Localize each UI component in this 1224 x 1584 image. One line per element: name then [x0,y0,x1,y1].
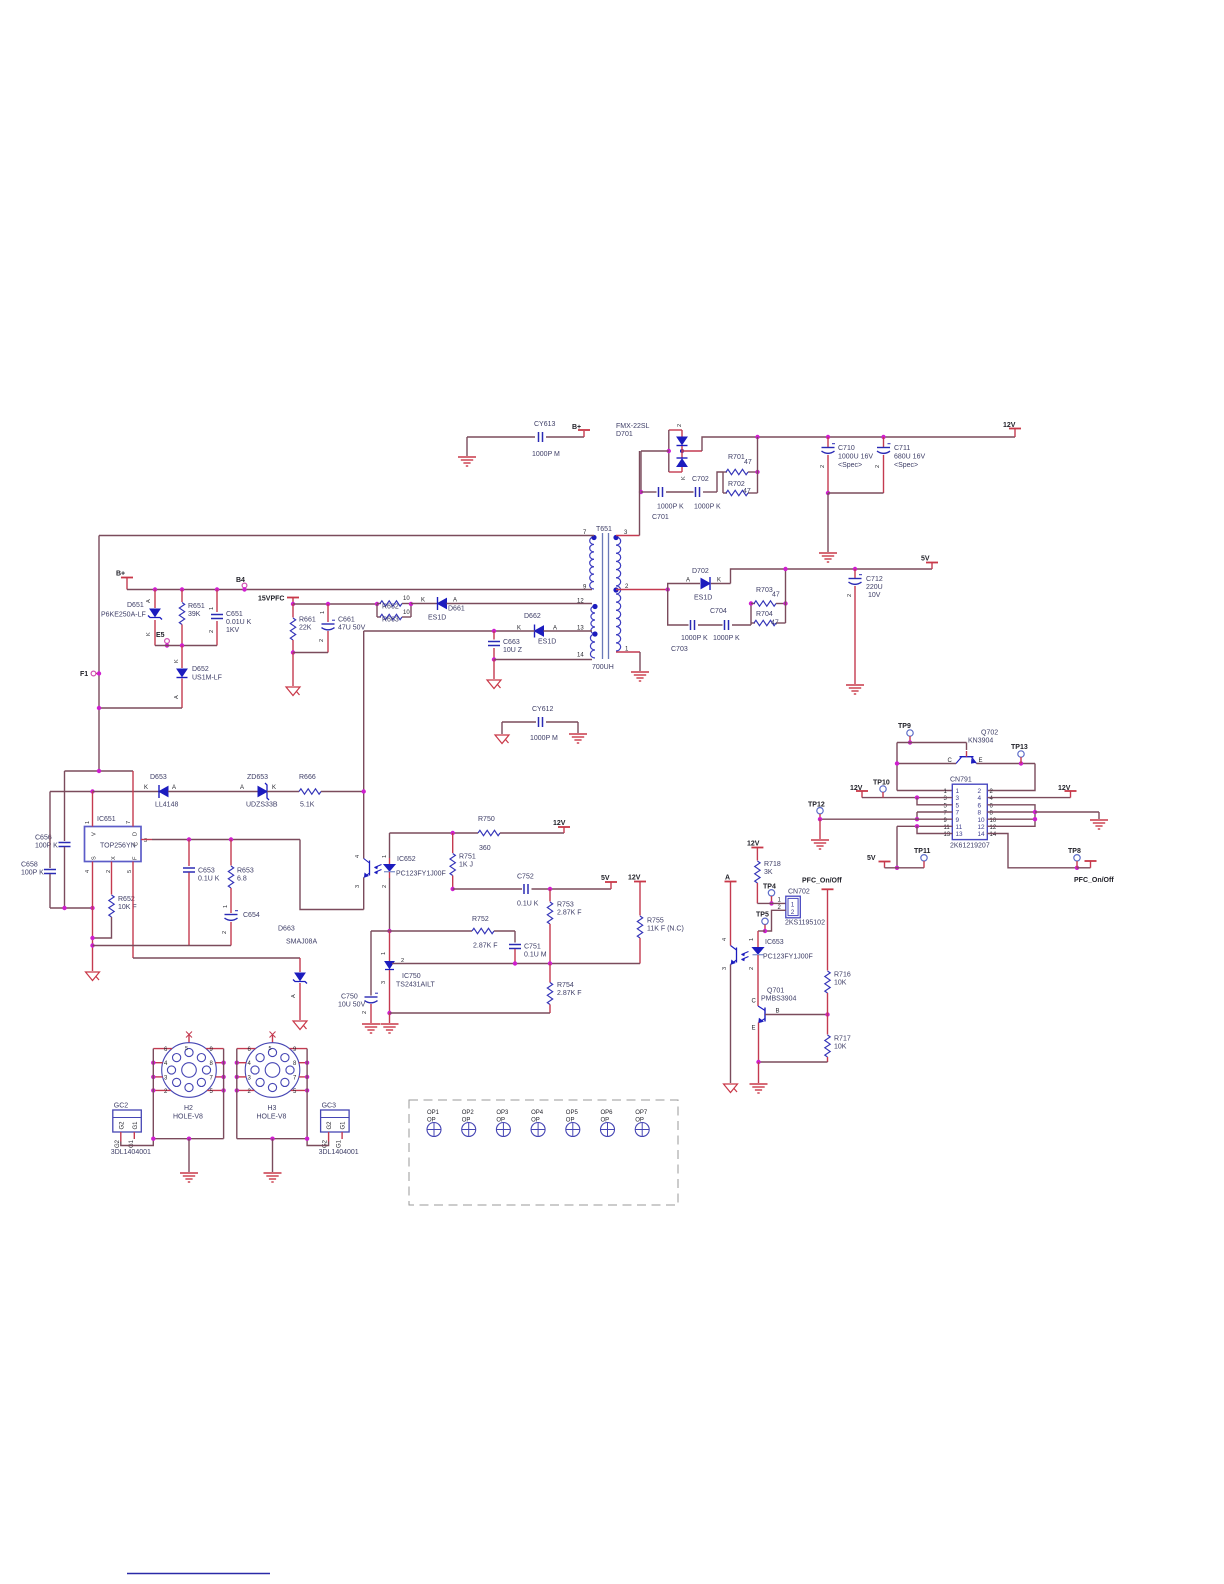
svg-text:R651: R651 [188,603,205,610]
wire bias bottom [291,650,295,654]
T651 secondary pins 3-2-1 [616,537,621,651]
svg-text:2.87K F: 2.87K F [557,990,582,997]
node 12V [1014,429,1016,437]
node 5V C752 [610,883,612,890]
svg-text:IC750: IC750 [402,973,421,980]
svg-text:X: X [111,856,117,860]
option pads OP1-OP7 box [409,1100,678,1205]
svg-text:1000P K: 1000P K [681,635,708,642]
wire pin V [92,792,94,827]
node pin2 junction [616,589,668,591]
svg-text:G2: G2 [327,1121,333,1130]
svg-text:1KV: 1KV [226,627,240,634]
svg-text:39K: 39K [188,611,201,618]
wire TP9 to base [897,742,967,744]
wire left HV vertical [98,536,100,772]
svg-text:5V: 5V [867,855,876,862]
capacitor C752 0.1U K [451,887,455,891]
ground [631,672,649,681]
node 12V R750 [563,828,565,834]
svg-text:1: 1 [956,788,960,795]
node 12V R755 [634,881,646,883]
svg-text:PMBS3904: PMBS3904 [761,996,797,1003]
svg-text:47: 47 [743,488,751,495]
svg-text:47: 47 [771,620,779,627]
svg-text:2: 2 [791,909,795,916]
svg-text:G2: G2 [119,1121,125,1130]
resistor R702 47 [722,472,724,493]
svg-text:10K F: 10K F [118,904,137,911]
svg-text:12V: 12V [628,875,641,882]
wire source rail [50,907,93,909]
svg-text:R653: R653 [237,868,254,875]
svg-text:C701: C701 [652,514,669,521]
svg-text:3: 3 [956,795,960,802]
wire pin7 long [99,535,594,537]
diode D651 P6KE250A-LF [153,587,157,591]
svg-text:C704: C704 [710,608,727,615]
ground [846,685,864,694]
svg-text:C712: C712 [866,576,883,583]
wire snubber bottom [155,645,217,647]
svg-text:K: K [146,632,152,636]
svg-text:7: 7 [956,810,960,817]
svg-text:TP4: TP4 [763,884,776,891]
svg-text:1: 1 [223,905,229,908]
svg-text:OP6: OP6 [601,1110,614,1116]
svg-text:10V: 10V [868,592,881,599]
connector CN702 2KS1195102 [786,896,801,918]
svg-text:Q701: Q701 [767,988,784,995]
svg-text:P6KE250A-LF: P6KE250A-LF [101,612,146,619]
svg-text:R754: R754 [557,982,574,989]
svg-text:T651: T651 [596,526,612,533]
svg-text:13: 13 [956,831,964,838]
svg-text:C654: C654 [243,912,260,919]
svg-text:2: 2 [978,788,982,795]
wire to CN702 pin1 [757,902,785,904]
svg-text:3: 3 [381,981,387,984]
svg-text:1K J: 1K J [459,862,473,869]
ground earth [577,722,579,733]
svg-text:1: 1 [320,611,326,614]
svg-text:5V: 5V [921,556,930,563]
svg-text:4: 4 [978,795,982,802]
svg-text:PC123FY1J00F: PC123FY1J00F [396,871,446,878]
svg-text:2: 2 [222,931,228,934]
svg-text:2: 2 [209,630,215,633]
capacitor C712 220U 10V [853,567,857,571]
ground [1090,820,1108,829]
capacitor C654 [230,888,232,913]
svg-text:OP4: OP4 [531,1110,544,1116]
svg-text:ES1D: ES1D [694,595,712,602]
node D701 out [667,449,671,453]
svg-text:100P K: 100P K [35,843,58,850]
wire pin8 to ground [1035,811,1099,813]
capacitor CY612 [502,721,536,723]
wire pinC down [300,840,364,910]
wire pin7 tie [917,811,952,813]
capacitor C704 [698,624,723,626]
ground chassis [724,1084,738,1093]
wire cap bottoms [826,491,830,495]
svg-text:ES1D: ES1D [538,639,556,646]
svg-text:12V: 12V [1003,422,1016,429]
svg-text:S: S [92,856,98,860]
svg-text:G1: G1 [341,1121,347,1130]
svg-text:R752: R752 [472,916,489,923]
svg-text:TOP256YN: TOP256YN [100,843,136,850]
svg-text:CN791: CN791 [950,777,972,784]
svg-text:PFC_On/Off: PFC_On/Off [1074,877,1114,884]
svg-text:TP5: TP5 [756,912,769,919]
svg-text:1000P M: 1000P M [532,451,560,458]
svg-text:SMAJ08A: SMAJ08A [286,939,317,946]
svg-text:OP7: OP7 [635,1110,648,1116]
svg-text:9: 9 [956,817,960,824]
wire emitter down [363,878,365,910]
svg-text:C: C [752,999,757,1005]
wire cathode bottom [387,1011,391,1015]
resistor R752 2.87K F [472,928,494,933]
resistor R717 10K [827,1015,829,1035]
svg-text:0.1U K: 0.1U K [198,876,220,883]
svg-text:G2: G2 [115,1139,121,1148]
resistor R718 3K [755,861,760,883]
wire feedback vertical [363,631,365,859]
resistor R750 360 [390,832,479,834]
shunt ref IC750 TS2431AILT [389,931,391,961]
svg-text:15VPFC: 15VPFC [258,596,284,603]
svg-text:R701: R701 [728,454,745,461]
capacitor C702 [666,491,694,493]
svg-text:A: A [686,578,690,584]
svg-text:IC651: IC651 [97,816,116,823]
svg-text:G1: G1 [129,1139,135,1148]
wire emitter to ground [758,1062,760,1083]
svg-text:C658: C658 [21,862,38,869]
wire pin14 PFC_On/Off [987,834,1077,868]
wire ref line [392,963,640,965]
svg-text:12: 12 [978,824,986,831]
svg-text:10K: 10K [834,1044,847,1051]
svg-text:10K: 10K [834,980,847,987]
wire collector to pin1 [897,763,956,765]
svg-text:2: 2 [677,424,683,427]
svg-text:C653: C653 [198,868,215,875]
wire Vsense line [387,929,391,933]
connector GC2 3DL1404001 [113,1110,142,1132]
resistor R661 22K [292,604,294,618]
svg-text:K: K [421,598,425,604]
svg-text:3K: 3K [764,869,773,876]
node B+ left [121,577,133,579]
svg-text:F: F [133,856,139,860]
resistor R716 10K [825,971,830,993]
svg-text:2: 2 [820,465,826,468]
svg-text:700UH: 700UH [592,664,614,671]
svg-text:OP3: OP3 [496,1110,509,1116]
svg-text:TS2431AILT: TS2431AILT [396,982,436,989]
ground chassis [501,722,503,734]
svg-text:HOLE-V8: HOLE-V8 [173,1114,203,1121]
svg-text:7: 7 [126,821,132,824]
svg-text:KN3904: KN3904 [968,738,993,745]
svg-text:B+: B+ [116,571,125,578]
svg-text:2: 2 [749,967,755,970]
svg-text:C711: C711 [894,445,910,452]
footer line [127,1573,270,1575]
svg-text:PC123FY1J00F: PC123FY1J00F [763,954,813,961]
diode D652 US1M-LF [181,646,183,669]
wire pin F [132,862,134,959]
svg-text:A: A [553,626,557,632]
svg-text:F1: F1 [80,671,88,678]
svg-text:R755: R755 [647,918,664,925]
svg-text:C663: C663 [503,639,520,646]
svg-text:6.8: 6.8 [237,876,247,883]
svg-text:C752: C752 [517,874,534,881]
hole pattern H2 HOLE-V8 [188,1034,190,1043]
svg-text:1000P K: 1000P K [694,504,721,511]
svg-text:2KS1195102: 2KS1195102 [785,920,825,927]
wire pin3 up to D701 [616,535,640,537]
resistor R651 39K [180,587,184,591]
svg-text:R666: R666 [299,774,316,781]
svg-text:C: C [134,842,140,846]
svg-text:A: A [725,875,730,882]
svg-text:12V: 12V [747,841,760,848]
svg-text:4: 4 [85,870,91,873]
svg-text:TP8: TP8 [1068,848,1081,855]
svg-text:R717: R717 [834,1036,851,1043]
svg-text:2: 2 [382,885,388,888]
svg-text:5V: 5V [601,875,610,882]
svg-text:R703: R703 [756,587,773,594]
wire pin5 tie [917,798,952,805]
svg-text:K: K [272,785,276,791]
svg-text:R702: R702 [728,481,745,488]
svg-text:IC653: IC653 [765,939,784,946]
ground [466,437,468,456]
diode D653 LL4148 [93,791,160,793]
ground [819,819,821,839]
resistor R652 10K F [111,862,113,895]
svg-text:A: A [453,598,457,604]
capacitor C710 1000U 16V [826,435,830,439]
wire bottom rail to caps [90,943,94,947]
svg-text:A: A [291,994,297,998]
svg-text:C702: C702 [692,476,709,483]
wire drain top rail [65,770,134,772]
svg-text:C750: C750 [341,994,358,1001]
svg-text:D: D [133,832,139,836]
svg-text:ES1D: ES1D [428,615,446,622]
wire feedback 13 line [364,630,535,632]
svg-text:5: 5 [127,870,133,873]
wire emitter to TP13/pin2 [977,763,1036,765]
wire 12V rail top [758,436,1016,438]
svg-text:47U 50V: 47U 50V [338,625,366,632]
capacitor C653 0.1U K [187,837,191,841]
svg-text:<Spec>: <Spec> [894,462,918,469]
svg-text:2: 2 [362,1011,368,1014]
svg-text:TP12: TP12 [808,802,825,809]
ground [750,1084,768,1093]
svg-text:2.87K F: 2.87K F [557,910,582,917]
svg-text:2: 2 [847,594,853,597]
svg-text:E5: E5 [156,632,165,639]
svg-text:1000U 16V: 1000U 16V [838,454,873,461]
svg-text:H3: H3 [268,1105,277,1112]
svg-text:<Spec>: <Spec> [838,462,862,469]
svg-text:4: 4 [355,855,361,858]
svg-text:CY613: CY613 [534,421,556,428]
svg-text:OP5: OP5 [566,1110,579,1116]
connector GC3 3DL1404001 [321,1110,350,1132]
svg-text:TP10: TP10 [873,780,890,787]
wire phototransistor emitter [730,965,732,1084]
svg-text:LL4148: LL4148 [155,802,178,809]
svg-text:1000P M: 1000P M [530,735,558,742]
svg-text:GC3: GC3 [322,1103,337,1110]
svg-text:US1M-LF: US1M-LF [192,675,222,682]
svg-text:12V: 12V [1058,785,1071,792]
svg-text:6: 6 [978,802,982,809]
svg-text:D701: D701 [616,431,633,438]
hole pattern H3 HOLE-V8 [272,1034,274,1043]
svg-text:R753: R753 [557,902,574,909]
resistor R663 10 [376,604,378,617]
svg-text:D653: D653 [150,774,167,781]
svg-text:22K: 22K [299,625,312,632]
svg-text:0.1U M: 0.1U M [524,952,547,959]
svg-text:R750: R750 [478,816,495,823]
svg-text:1: 1 [791,902,795,909]
svg-text:1: 1 [381,952,387,955]
svg-text:C703: C703 [671,646,688,653]
svg-text:R662: R662 [382,604,399,611]
resistor R755 11K F [637,916,642,938]
wire 5V to pin11 [897,825,952,827]
wire pin14 [492,657,496,661]
resistor R666 5.1K [299,789,321,794]
svg-text:A: A [146,599,152,603]
svg-text:14: 14 [577,653,584,659]
svg-text:11: 11 [956,824,963,831]
resistor R751 1K J [452,833,454,853]
svg-text:8: 8 [978,810,982,817]
svg-text:GC2: GC2 [114,1103,129,1110]
resistor R704 47 [751,622,755,624]
ground chassis [292,653,294,687]
svg-text:K: K [717,578,721,584]
svg-text:10: 10 [978,817,986,824]
svg-text:0.01U K: 0.01U K [226,619,252,626]
svg-text:5.1K: 5.1K [300,802,315,809]
resistor R753 2.87K F [549,889,551,902]
connector CN791 2K61219207 [952,784,987,839]
wire B+ rail to pin 9 [127,589,592,591]
node 5V [931,563,933,569]
ground chassis [493,660,495,680]
capacitor CY613 [467,436,535,438]
resistor R754 2.87K F [549,964,551,983]
capacitor C658 100P K [49,792,51,869]
T651 winding pins 7-9 [590,537,594,589]
svg-text:220U: 220U [866,584,883,591]
wire D652 return [99,707,182,709]
svg-text:3DL1404001: 3DL1404001 [319,1149,359,1156]
svg-text:R718: R718 [764,861,781,868]
svg-text:5: 5 [269,1046,272,1052]
wire base [765,1014,828,1016]
wire pin S [92,862,94,972]
svg-text:1: 1 [209,607,215,610]
wire pin D [132,771,134,827]
svg-text:D702: D702 [692,568,709,575]
svg-text:K: K [681,476,687,480]
svg-text:100P K: 100P K [21,870,44,877]
svg-text:D662: D662 [524,613,541,620]
svg-text:C661: C661 [338,617,355,624]
svg-text:2K61219207: 2K61219207 [950,843,990,850]
svg-text:1000P K: 1000P K [657,504,684,511]
svg-text:1: 1 [749,938,755,941]
svg-text:11K F (N.C): 11K F (N.C) [647,926,684,933]
svg-text:R663: R663 [382,617,399,624]
svg-text:1: 1 [85,821,91,824]
svg-text:CY612: CY612 [532,706,554,713]
svg-text:G2: G2 [323,1139,329,1148]
capacitor C711 680U 16V [881,435,885,439]
svg-text:G1: G1 [133,1121,139,1130]
svg-text:1: 1 [382,855,388,858]
svg-text:TP11: TP11 [914,848,930,855]
svg-text:10: 10 [403,596,410,602]
capacitor C661 47U 50V [326,602,330,606]
svg-text:PFC_On/Off: PFC_On/Off [802,878,842,885]
svg-text:R661: R661 [299,617,316,624]
wire pin6-8-10-12 tie [987,805,1035,827]
svg-text:C651: C651 [226,611,243,618]
ground [362,1024,380,1033]
svg-text:4: 4 [722,938,728,941]
svg-text:K: K [144,785,148,791]
svg-text:UDZS33B: UDZS33B [246,802,278,809]
svg-text:10U Z: 10U Z [503,647,523,654]
svg-text:FMX-22SL: FMX-22SL [616,423,650,430]
svg-text:IC652: IC652 [397,856,416,863]
svg-text:K: K [174,659,180,663]
svg-text:47: 47 [772,592,780,599]
capacitor C663 10U Z [493,631,495,640]
svg-text:ZD653: ZD653 [247,774,268,781]
svg-text:R704: R704 [756,611,773,618]
svg-text:14: 14 [978,831,986,838]
svg-text:5: 5 [956,802,960,809]
svg-text:3: 3 [722,967,728,970]
wire pin C [141,839,152,841]
capacitor C701 [639,490,643,494]
svg-text:A: A [174,695,180,699]
svg-text:360: 360 [479,845,491,852]
svg-text:10U 50V: 10U 50V [338,1002,366,1009]
svg-text:V: V [92,832,98,836]
node B+ top [583,431,585,437]
capacitor C656 100P K [64,771,66,841]
